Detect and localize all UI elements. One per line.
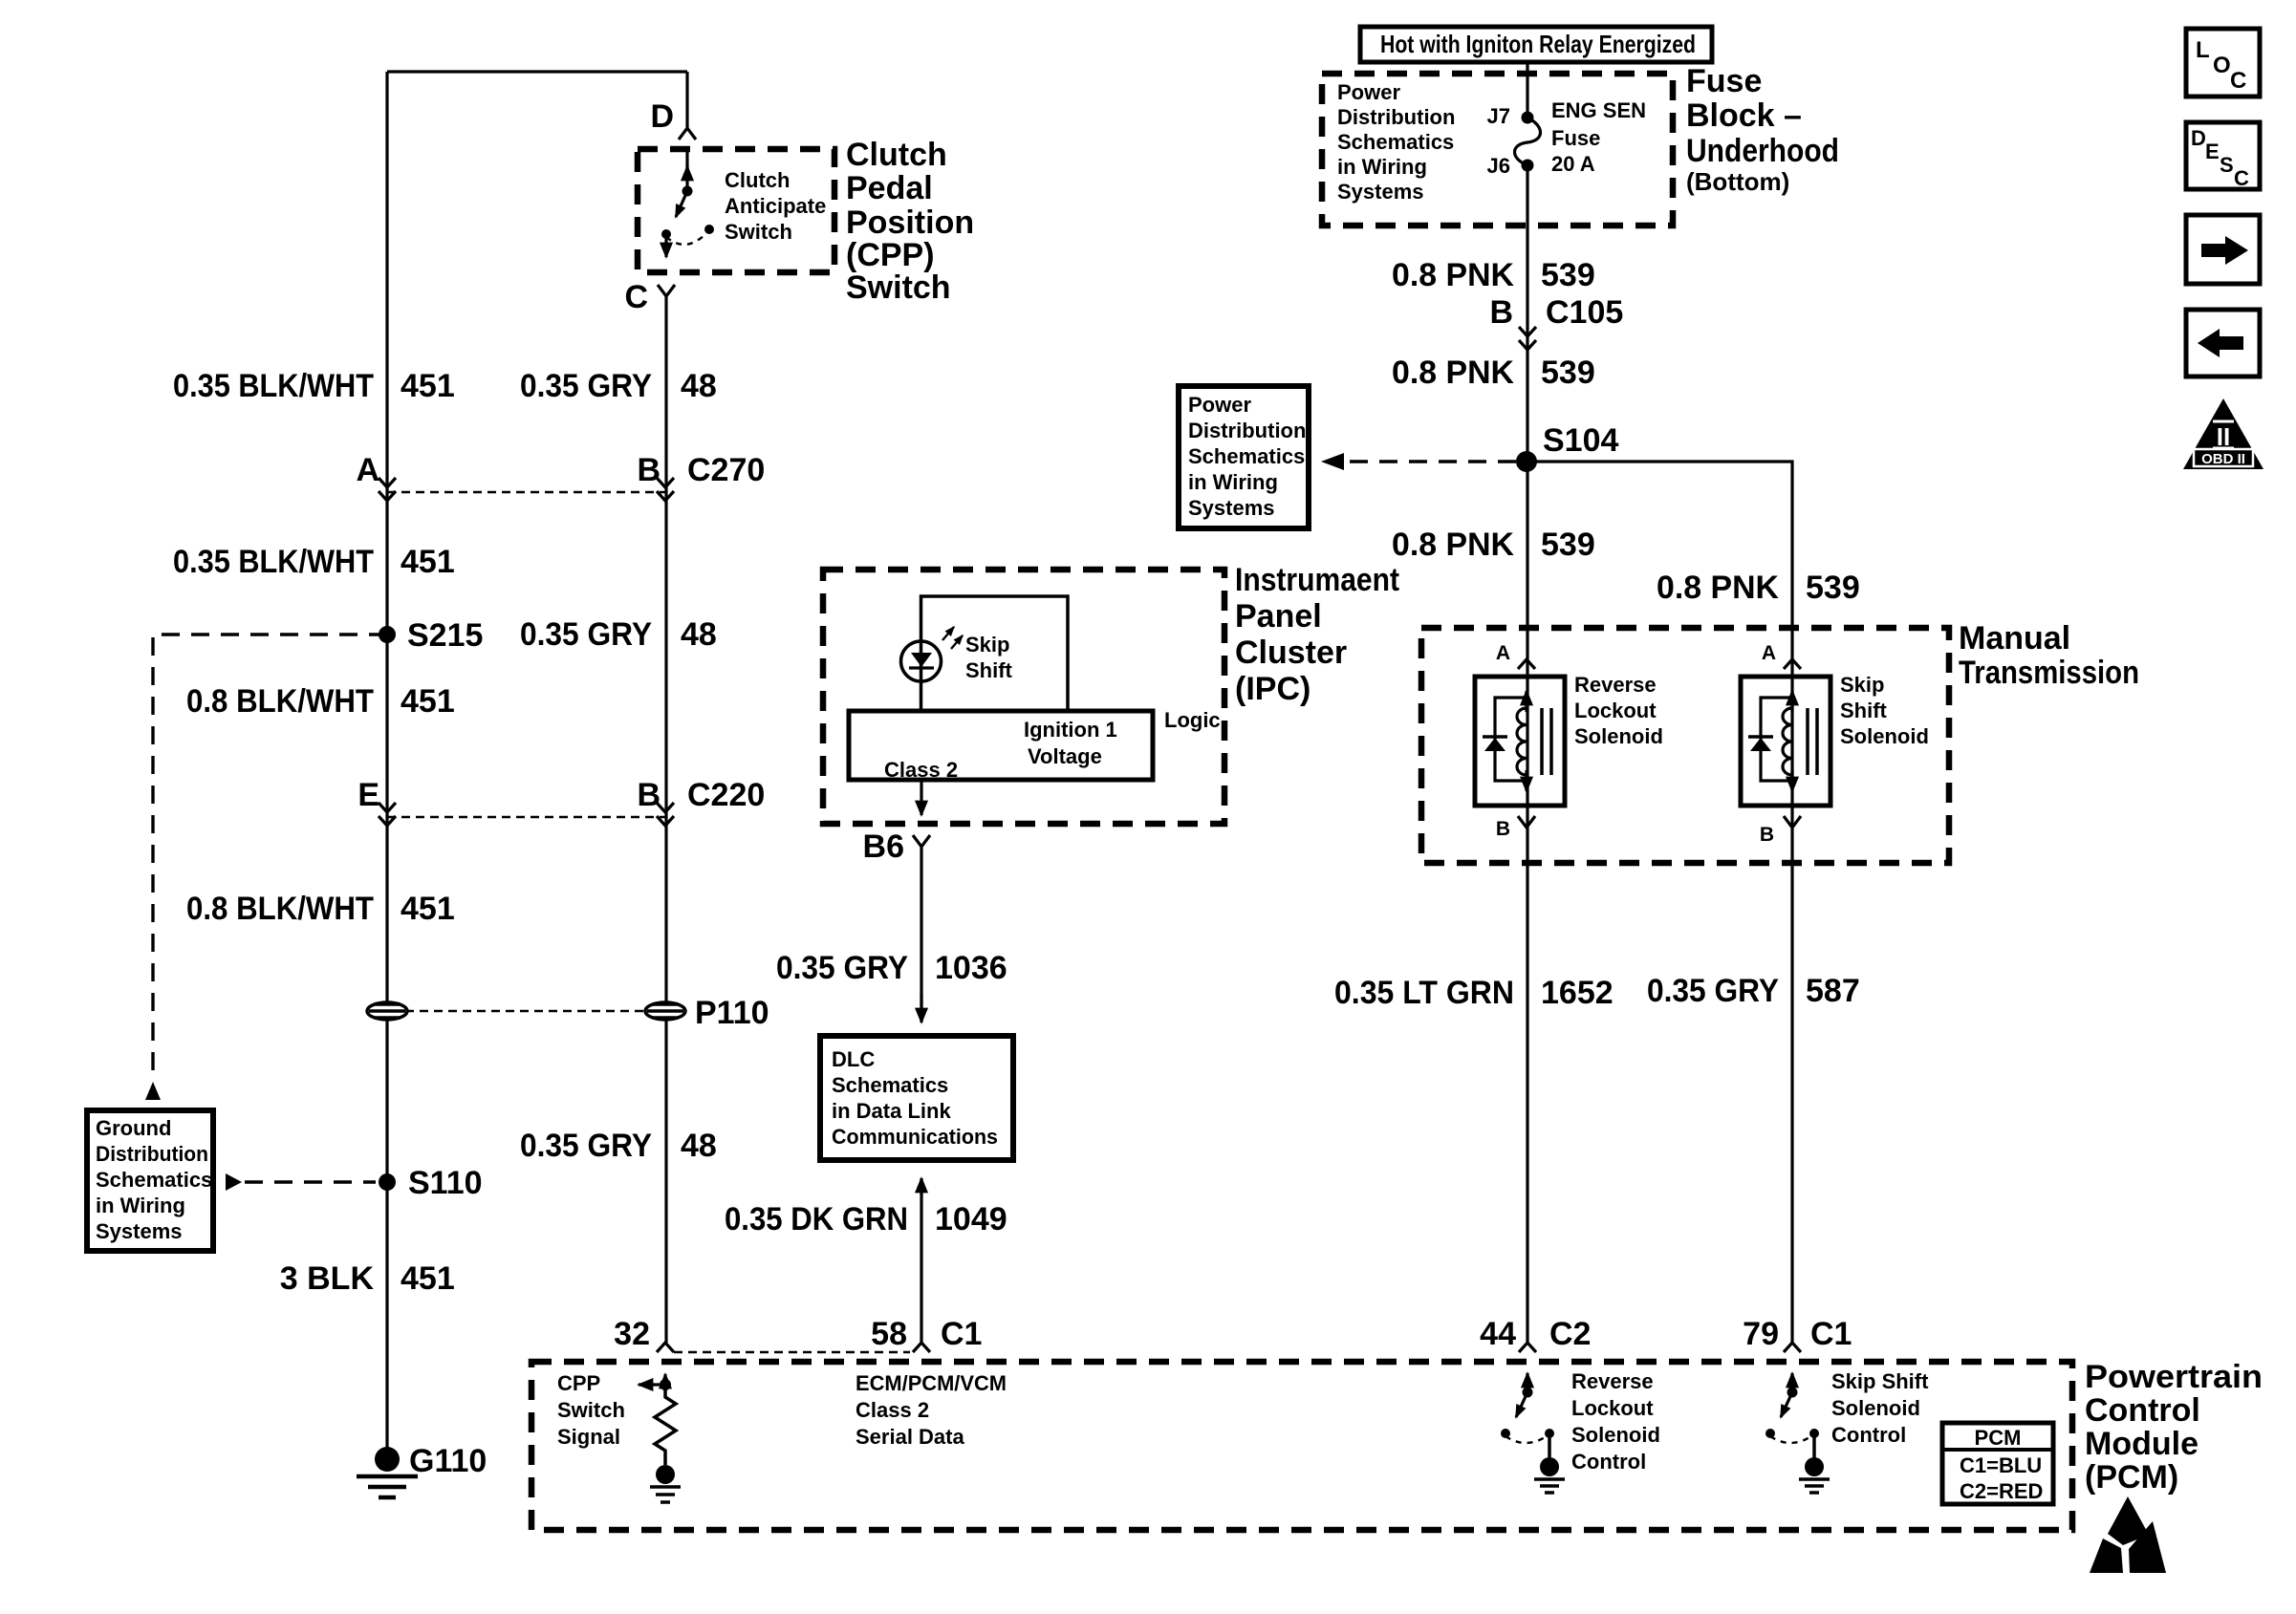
svg-text:Clutch: Clutch bbox=[846, 137, 947, 173]
svg-text:Lockout: Lockout bbox=[1571, 1396, 1654, 1420]
svg-text:C2=RED: C2=RED bbox=[1960, 1479, 2043, 1503]
svg-text:Signal: Signal bbox=[557, 1425, 620, 1449]
svg-text:E: E bbox=[357, 777, 379, 813]
svg-text:539: 539 bbox=[1541, 355, 1595, 391]
svg-text:A: A bbox=[1496, 642, 1510, 664]
svg-text:Class 2: Class 2 bbox=[856, 1398, 929, 1422]
svg-text:B: B bbox=[1760, 824, 1774, 846]
svg-text:48: 48 bbox=[681, 368, 717, 404]
svg-text:A: A bbox=[1762, 642, 1776, 664]
svg-text:451: 451 bbox=[401, 544, 455, 580]
svg-text:0.8 BLK/WHT: 0.8 BLK/WHT bbox=[186, 891, 374, 927]
svg-text:0.8 BLK/WHT: 0.8 BLK/WHT bbox=[186, 683, 374, 720]
svg-text:Distribution: Distribution bbox=[1337, 105, 1455, 129]
svg-text:S215: S215 bbox=[407, 617, 483, 654]
svg-text:Skip Shift: Skip Shift bbox=[1831, 1369, 1929, 1393]
svg-text:Shift: Shift bbox=[965, 658, 1013, 682]
svg-text:Distribution: Distribution bbox=[96, 1142, 208, 1166]
svg-text:Schematics: Schematics bbox=[1337, 130, 1454, 154]
svg-text:S104: S104 bbox=[1543, 422, 1618, 459]
svg-text:Solenoid: Solenoid bbox=[1840, 724, 1929, 748]
svg-text:Underhood: Underhood bbox=[1686, 133, 1839, 169]
svg-text:Skip: Skip bbox=[965, 633, 1009, 656]
svg-text:Anticipate: Anticipate bbox=[725, 194, 826, 218]
svg-text:44: 44 bbox=[1480, 1316, 1516, 1352]
svg-text:B: B bbox=[1489, 294, 1513, 331]
svg-text:Systems: Systems bbox=[1337, 180, 1424, 204]
svg-text:Manual: Manual bbox=[1959, 620, 2070, 656]
svg-text:S: S bbox=[2220, 153, 2234, 177]
svg-text:CPP: CPP bbox=[557, 1371, 600, 1395]
svg-text:C220: C220 bbox=[687, 777, 765, 813]
svg-text:in Wiring: in Wiring bbox=[1188, 470, 1278, 494]
svg-text:48: 48 bbox=[681, 1128, 717, 1164]
svg-text:PCM: PCM bbox=[1975, 1426, 2022, 1450]
svg-text:Solenoid: Solenoid bbox=[1574, 724, 1663, 748]
svg-text:Switch: Switch bbox=[846, 269, 951, 306]
svg-text:C105: C105 bbox=[1546, 294, 1623, 331]
svg-text:0.35 GRY: 0.35 GRY bbox=[1647, 973, 1779, 1009]
svg-text:C2: C2 bbox=[1549, 1316, 1591, 1352]
svg-text:DLC: DLC bbox=[832, 1047, 875, 1071]
svg-text:J6: J6 bbox=[1487, 154, 1510, 178]
svg-text:C1: C1 bbox=[941, 1316, 982, 1352]
svg-text:Class 2: Class 2 bbox=[884, 758, 958, 782]
svg-text:451: 451 bbox=[401, 683, 455, 720]
svg-text:0.35 BLK/WHT: 0.35 BLK/WHT bbox=[173, 368, 374, 404]
svg-text:B: B bbox=[637, 777, 661, 813]
svg-text:0.8 PNK: 0.8 PNK bbox=[1657, 570, 1779, 606]
svg-text:Fuse: Fuse bbox=[1686, 63, 1762, 99]
svg-text:0.35 BLK/WHT: 0.35 BLK/WHT bbox=[173, 544, 374, 580]
svg-text:G110: G110 bbox=[409, 1443, 487, 1479]
svg-text:451: 451 bbox=[401, 891, 455, 927]
svg-text:20 A: 20 A bbox=[1551, 152, 1595, 176]
svg-text:Ignition 1: Ignition 1 bbox=[1024, 718, 1117, 742]
svg-text:J7: J7 bbox=[1487, 104, 1510, 128]
svg-text:A: A bbox=[356, 452, 379, 488]
svg-text:Switch: Switch bbox=[725, 220, 792, 244]
svg-text:P110: P110 bbox=[695, 995, 769, 1031]
svg-text:Voltage: Voltage bbox=[1028, 744, 1102, 768]
svg-text:539: 539 bbox=[1541, 257, 1595, 293]
svg-text:1036: 1036 bbox=[935, 950, 1007, 986]
svg-text:Solenoid: Solenoid bbox=[1831, 1396, 1920, 1420]
svg-text:E: E bbox=[2205, 140, 2220, 163]
svg-text:B: B bbox=[1496, 818, 1510, 840]
svg-text:Power: Power bbox=[1337, 80, 1400, 104]
svg-text:in Data Link: in Data Link bbox=[832, 1099, 951, 1123]
svg-text:D: D bbox=[650, 98, 674, 135]
svg-text:79: 79 bbox=[1743, 1316, 1779, 1352]
svg-text:58: 58 bbox=[871, 1316, 907, 1352]
svg-text:Instrumaent: Instrumaent bbox=[1235, 562, 1399, 598]
svg-text:D: D bbox=[2191, 126, 2206, 150]
svg-text:Solenoid: Solenoid bbox=[1571, 1423, 1660, 1447]
svg-text:Communications: Communications bbox=[832, 1125, 998, 1149]
svg-text:B6: B6 bbox=[863, 829, 904, 865]
svg-text:Panel: Panel bbox=[1235, 598, 1322, 635]
svg-text:Pedal: Pedal bbox=[846, 170, 933, 206]
svg-text:L: L bbox=[2196, 37, 2210, 63]
svg-text:451: 451 bbox=[401, 368, 455, 404]
svg-text:0.35 GRY: 0.35 GRY bbox=[520, 368, 652, 404]
svg-text:Block –: Block – bbox=[1686, 97, 1802, 134]
svg-text:0.8 PNK: 0.8 PNK bbox=[1392, 527, 1514, 563]
svg-text:Control: Control bbox=[2085, 1392, 2200, 1429]
svg-text:C270: C270 bbox=[687, 452, 765, 488]
svg-text:B: B bbox=[637, 452, 661, 488]
svg-text:32: 32 bbox=[614, 1316, 650, 1352]
svg-text:3 BLK: 3 BLK bbox=[280, 1260, 375, 1297]
svg-text:Logic: Logic bbox=[1164, 708, 1221, 732]
svg-text:Shift: Shift bbox=[1840, 699, 1888, 722]
svg-text:S110: S110 bbox=[408, 1165, 483, 1201]
svg-text:Switch: Switch bbox=[557, 1398, 625, 1422]
svg-text:587: 587 bbox=[1806, 973, 1860, 1009]
svg-text:Hot with Igniton Relay Energiz: Hot with Igniton Relay Energized bbox=[1380, 30, 1696, 58]
svg-text:Schematics: Schematics bbox=[96, 1168, 212, 1192]
svg-text:Clutch: Clutch bbox=[725, 168, 790, 192]
svg-text:(PCM): (PCM) bbox=[2085, 1459, 2178, 1496]
svg-text:C1=BLU: C1=BLU bbox=[1960, 1453, 2042, 1477]
svg-text:O: O bbox=[2213, 53, 2231, 78]
svg-text:Schematics: Schematics bbox=[832, 1073, 948, 1097]
svg-text:1049: 1049 bbox=[935, 1201, 1007, 1237]
svg-text:Reverse: Reverse bbox=[1574, 673, 1657, 697]
svg-text:ENG SEN: ENG SEN bbox=[1551, 98, 1646, 122]
svg-text:Control: Control bbox=[1571, 1450, 1646, 1474]
svg-text:C: C bbox=[624, 279, 648, 315]
svg-text:OBD II: OBD II bbox=[2201, 451, 2245, 467]
svg-text:451: 451 bbox=[401, 1260, 455, 1297]
svg-text:0.35 LT GRN: 0.35 LT GRN bbox=[1334, 975, 1514, 1011]
svg-text:Skip: Skip bbox=[1840, 673, 1884, 697]
svg-text:Ground: Ground bbox=[96, 1116, 171, 1140]
svg-text:Cluster: Cluster bbox=[1235, 635, 1347, 671]
svg-text:0.35 DK GRN: 0.35 DK GRN bbox=[725, 1201, 908, 1237]
svg-text:0.8 PNK: 0.8 PNK bbox=[1392, 257, 1514, 293]
svg-text:in Wiring: in Wiring bbox=[96, 1194, 185, 1217]
svg-text:0.8 PNK: 0.8 PNK bbox=[1392, 355, 1514, 391]
svg-text:48: 48 bbox=[681, 616, 717, 653]
svg-text:Reverse: Reverse bbox=[1571, 1369, 1654, 1393]
svg-text:Transmission: Transmission bbox=[1959, 655, 2139, 691]
svg-text:539: 539 bbox=[1806, 570, 1860, 606]
svg-text:Power: Power bbox=[1188, 393, 1251, 417]
svg-text:0.35 GRY: 0.35 GRY bbox=[776, 950, 908, 986]
svg-text:Serial Data: Serial Data bbox=[856, 1425, 964, 1449]
svg-text:Lockout: Lockout bbox=[1574, 699, 1657, 722]
svg-text:1652: 1652 bbox=[1541, 975, 1614, 1011]
svg-text:0.35 GRY: 0.35 GRY bbox=[520, 616, 652, 653]
svg-text:Fuse: Fuse bbox=[1551, 126, 1600, 150]
svg-text:ECM/PCM/VCM: ECM/PCM/VCM bbox=[856, 1371, 1007, 1395]
svg-text:Position: Position bbox=[846, 204, 974, 241]
svg-text:(IPC): (IPC) bbox=[1235, 671, 1310, 707]
svg-text:C1: C1 bbox=[1810, 1316, 1852, 1352]
svg-text:(Bottom): (Bottom) bbox=[1686, 167, 1789, 196]
svg-text:in Wiring: in Wiring bbox=[1337, 155, 1427, 179]
svg-text:C: C bbox=[2234, 166, 2249, 190]
svg-text:Systems: Systems bbox=[96, 1219, 183, 1243]
svg-text:Module: Module bbox=[2085, 1426, 2199, 1462]
svg-text:Powertrain: Powertrain bbox=[2085, 1359, 2263, 1395]
svg-text:(CPP): (CPP) bbox=[846, 237, 935, 273]
svg-text:Control: Control bbox=[1831, 1423, 1906, 1447]
svg-text:Schematics: Schematics bbox=[1188, 444, 1305, 468]
svg-text:Distribution: Distribution bbox=[1188, 419, 1306, 442]
svg-text:539: 539 bbox=[1541, 527, 1595, 563]
svg-text:Systems: Systems bbox=[1188, 496, 1275, 520]
svg-text:0.35 GRY: 0.35 GRY bbox=[520, 1128, 652, 1164]
svg-text:C: C bbox=[2230, 68, 2246, 94]
